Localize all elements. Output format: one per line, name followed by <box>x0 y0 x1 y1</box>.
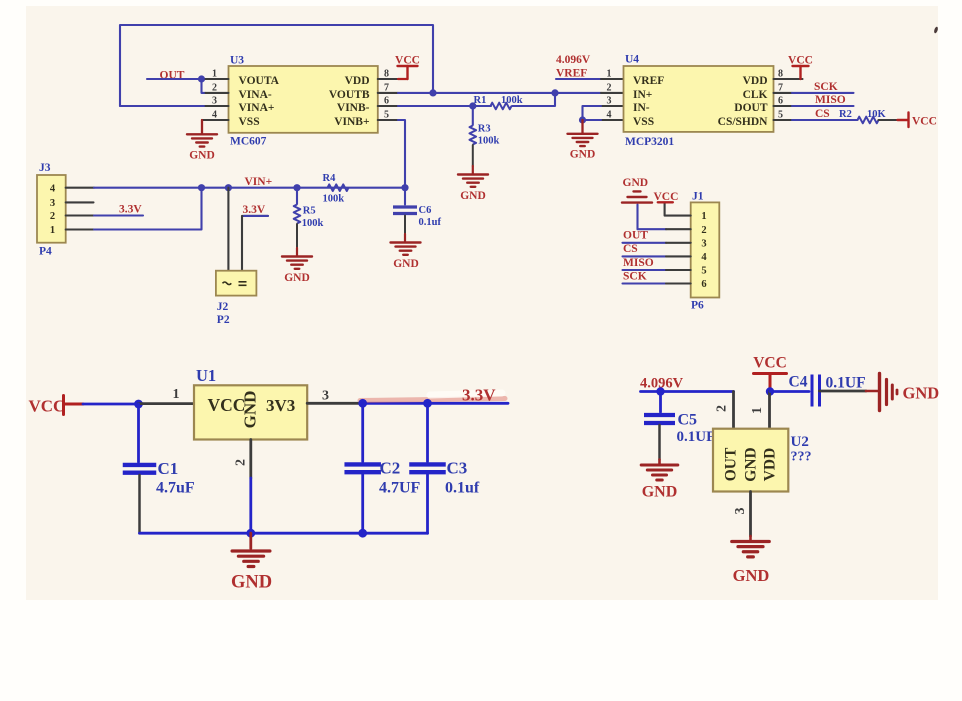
wire R5 ground stub <box>296 248 298 256</box>
power VCC at U4 pin 8 <box>793 66 809 79</box>
U3 pin number 6 <box>384 95 389 106</box>
label C6 <box>419 205 432 216</box>
J1 pin number 4 <box>701 252 707 263</box>
wire J3 pin2 3.3V stub <box>94 214 143 216</box>
svg-text:CS/SHDN: CS/SHDN <box>718 116 769 128</box>
label U2 value ??? <box>791 450 812 465</box>
label C6 value 0.1uf <box>419 217 442 228</box>
label R2 value 10K <box>867 109 887 120</box>
wire VREF to U4 pin 1 <box>556 78 601 80</box>
svg-text:4: 4 <box>50 184 56 195</box>
svg-text:8: 8 <box>384 68 389 79</box>
resistor R2 <box>858 117 879 124</box>
wire C5 ground stub <box>658 460 661 464</box>
svg-text:VCC: VCC <box>753 355 787 372</box>
junction OUT node <box>198 75 205 82</box>
U3 pin 2 stub <box>206 92 229 94</box>
J1 pin number 5 <box>701 266 706 277</box>
U2 pin number 2 rotated <box>715 405 730 412</box>
label R4 <box>323 173 337 184</box>
U3 pin name VINB- <box>337 102 370 114</box>
svg-text:VDD: VDD <box>345 75 370 87</box>
U1 pin number 2 rotated <box>233 459 248 466</box>
U4 pin number 2 <box>607 82 612 93</box>
net label 4.096V at C5 <box>640 376 684 392</box>
ground at J1 <box>622 191 652 202</box>
resistor R4 <box>328 184 349 191</box>
svg-text:GND: GND <box>570 149 596 161</box>
ground at U2 <box>732 542 770 557</box>
wire rail to ground <box>249 533 252 548</box>
J3 pin number 3 <box>50 198 55 209</box>
net label 3.3V at J3 <box>119 204 142 216</box>
U3 pin 4 stub <box>202 119 229 121</box>
U3 pin number 3 <box>212 95 217 106</box>
wire OUT to U3 pin 2 <box>202 79 206 93</box>
svg-text:GND: GND <box>284 272 310 284</box>
U4 pin number 1 <box>607 68 612 79</box>
svg-text:MC607: MC607 <box>230 136 267 148</box>
label GND at R3 <box>460 190 486 202</box>
wire C3 bottom <box>426 475 429 534</box>
junction J2 riser <box>225 184 232 191</box>
speck mark top-right <box>933 26 938 33</box>
wire ground rail <box>140 532 428 535</box>
ground at R5 <box>282 257 312 269</box>
svg-text:GND: GND <box>393 258 419 270</box>
svg-text:R5: R5 <box>303 206 316 217</box>
net label MISO <box>815 94 846 106</box>
label U4 <box>625 54 639 66</box>
wire U3 VSS to ground <box>201 120 203 133</box>
wire MISO net <box>792 105 854 107</box>
U3 pin name VOUTB <box>329 89 370 101</box>
svg-text:2: 2 <box>50 211 55 222</box>
wire C1 top <box>137 404 140 462</box>
svg-text:2: 2 <box>607 82 612 93</box>
svg-text:VREF: VREF <box>556 68 587 80</box>
svg-text:VOUTA: VOUTA <box>239 75 280 87</box>
svg-text:R1: R1 <box>474 95 487 106</box>
svg-text:GND: GND <box>642 484 678 501</box>
svg-text:3: 3 <box>212 95 217 106</box>
U4 pin 4 stub <box>601 119 624 121</box>
label C3 value 0.1uf <box>445 480 480 497</box>
U3 pin number 7 <box>384 82 389 93</box>
U1 pin name 3V3 <box>266 396 295 415</box>
power VCC bar at U2 <box>754 374 787 392</box>
svg-text:4: 4 <box>607 109 612 120</box>
wire VCC to U1 pin 1 <box>83 403 139 406</box>
svg-text:VSS: VSS <box>239 116 260 128</box>
U3 pin 8 stub <box>378 78 398 80</box>
capacitor C5 <box>644 415 675 423</box>
wire C1 bottom <box>138 475 141 533</box>
label VCC at J1 <box>654 191 679 203</box>
J1 pin 2 stub <box>666 228 691 230</box>
power VCC at J1 <box>658 201 673 203</box>
svg-text:5: 5 <box>778 109 783 120</box>
svg-text:VOUTB: VOUTB <box>329 89 370 101</box>
label C5 value 0.1UF <box>677 429 716 445</box>
U3 pin 5 stub <box>378 119 398 121</box>
U2 pin number 3 rotated <box>733 508 748 515</box>
wire U2 pin 3 ground stub <box>749 536 752 540</box>
label MC607 <box>230 136 267 148</box>
wire J1 MISO net <box>623 269 667 271</box>
svg-text:VINA-: VINA- <box>239 89 272 101</box>
wire C4 ground stub <box>866 390 878 393</box>
svg-text:5: 5 <box>384 109 389 120</box>
svg-text:3: 3 <box>701 238 706 249</box>
svg-text:VREF: VREF <box>633 75 664 87</box>
U2 pin name OUT rotated <box>723 447 740 481</box>
U4 pin name DOUT <box>734 102 768 114</box>
svg-text:GND: GND <box>743 447 760 481</box>
wire R5 to ground <box>296 224 298 248</box>
J3 pin 4 stub <box>66 187 94 189</box>
capacitor C6 <box>393 207 417 214</box>
U4 pin number 4 <box>607 109 612 120</box>
wire R2 to VCC <box>879 119 898 121</box>
wire U3 pin8 to VCC <box>398 78 408 80</box>
svg-text:1: 1 <box>701 211 706 222</box>
junction U4 VSS node <box>579 116 586 123</box>
U1 pin name GND rotated <box>240 391 259 429</box>
J1 pin number 2 <box>701 225 706 236</box>
U3 pin name VOUTA <box>239 75 280 87</box>
svg-text:VINB+: VINB+ <box>334 116 369 128</box>
wire U4 IN- to VSS node <box>583 106 602 120</box>
junction C6 node <box>401 184 408 191</box>
wire J3 pin1 to VIN+ <box>94 188 202 230</box>
U3 pin number 8 <box>384 68 389 79</box>
svg-text:J2: J2 <box>217 301 229 313</box>
svg-text:P2: P2 <box>217 314 230 326</box>
junction J3 pin1 riser <box>198 184 205 191</box>
label R2 <box>839 109 852 120</box>
wire CS net to R2 <box>792 119 858 121</box>
capacitor C4 <box>812 375 820 407</box>
wire C6 ground stub <box>404 234 406 242</box>
U3 pin 1 stub <box>206 78 229 80</box>
svg-text:7: 7 <box>778 82 783 93</box>
label U3 <box>230 55 244 67</box>
svg-text:VCC: VCC <box>788 55 813 67</box>
label C5 <box>678 412 698 429</box>
svg-text:100k: 100k <box>323 194 345 205</box>
label R4 value 100k <box>323 194 345 205</box>
U3 pin number 2 <box>212 82 217 93</box>
wire U1 pin 2 to rail <box>249 478 252 533</box>
svg-text:U1: U1 <box>196 366 216 385</box>
svg-text:3.3V: 3.3V <box>243 204 266 216</box>
wire U3 VOUTB to U4 IN+ <box>398 92 601 94</box>
wire J1 CS net <box>623 255 667 257</box>
junction feedback loop on VOUTB <box>429 89 436 96</box>
svg-text:VIN+: VIN+ <box>245 176 273 188</box>
svg-text:4: 4 <box>701 252 707 263</box>
wire J2 pin to VIN+ <box>227 188 229 271</box>
wire U2 pin 1 drop <box>768 392 771 429</box>
svg-text:C3: C3 <box>447 459 468 478</box>
wire U2 pin 2 drop <box>732 392 735 429</box>
label R3 <box>478 124 491 135</box>
label J3 <box>39 162 51 174</box>
pink smear artifact <box>360 399 505 401</box>
U3 pin number 1 <box>212 68 217 79</box>
wire 3.3V stub blue <box>244 215 268 217</box>
net label SCK <box>814 81 838 93</box>
junction R1 on VOUTB net <box>551 89 558 96</box>
label P2 <box>217 314 230 326</box>
net label VREF at U4 <box>556 68 587 80</box>
svg-text:SCK: SCK <box>623 270 647 282</box>
U4 pin 5 stub <box>774 119 793 121</box>
label R5 <box>303 206 316 217</box>
svg-text:VCC: VCC <box>395 55 420 67</box>
svg-text:1: 1 <box>607 68 612 79</box>
ground at C6 <box>391 243 421 255</box>
wire OUT to U3 pin 1 <box>147 78 206 80</box>
svg-text:VDD: VDD <box>743 75 768 87</box>
label VCC at U3 pin 8 <box>395 55 420 67</box>
wire J1 pin 2 to GND <box>638 205 667 230</box>
net label 3.3V at J2 <box>243 204 266 216</box>
wire J1 pin 1 to VCC <box>665 204 691 216</box>
U4 pin name VDD <box>743 75 768 87</box>
wire C4 to ground <box>820 390 867 393</box>
svg-text:GND: GND <box>903 384 940 403</box>
svg-text:6: 6 <box>384 95 389 106</box>
wire 4.096V to U2 pin 2 <box>641 390 734 393</box>
U4 pin 2 stub <box>601 92 624 94</box>
svg-text:2: 2 <box>233 459 248 466</box>
ground at U4 VSS <box>568 134 598 146</box>
wire U4 VSS stub <box>583 119 602 121</box>
svg-text:MCP3201: MCP3201 <box>625 136 674 148</box>
sensor U2 body <box>713 429 788 492</box>
label C1 value 4.7uF <box>156 480 195 497</box>
U3 pin 6 stub <box>378 105 398 107</box>
label R1 <box>474 95 487 106</box>
svg-text:0.1UF: 0.1UF <box>826 375 866 392</box>
svg-text:4.7uF: 4.7uF <box>156 480 195 497</box>
wire node to R3 <box>472 106 474 125</box>
U4 pin 8 stub <box>774 78 803 80</box>
U4 pin 3 stub <box>601 105 624 107</box>
ground at U3 VSS <box>187 134 217 146</box>
svg-text:1: 1 <box>173 387 180 402</box>
wire VIN+ to C6 <box>404 188 406 205</box>
svg-text:U2: U2 <box>791 434 809 450</box>
svg-text:1: 1 <box>50 225 55 236</box>
U3 pin name VSS <box>239 116 260 128</box>
U4 pin 7 stub <box>774 92 793 94</box>
label GND at C6 <box>393 258 419 270</box>
resistor R5 <box>294 205 301 224</box>
power VCC at U3 pin 8 <box>398 66 418 79</box>
svg-text:4.7UF: 4.7UF <box>379 480 421 497</box>
net label 3.3V output <box>462 386 496 405</box>
U1 pin number 3 <box>322 389 329 404</box>
wire U3 VINB+ down to VIN+ rail <box>398 120 405 188</box>
label GND at U4 VSS <box>570 149 596 161</box>
junction R5 node <box>293 184 300 191</box>
svg-text:OUT: OUT <box>723 447 740 481</box>
ground at R3 <box>458 175 488 187</box>
U4 pin number 3 <box>607 95 612 106</box>
svg-text:0.1uf: 0.1uf <box>419 217 442 228</box>
svg-text:DOUT: DOUT <box>734 102 768 114</box>
U4 pin number 6 <box>778 95 783 106</box>
wire J1 OUT net <box>623 242 667 244</box>
net label MISO at J1 <box>623 257 654 269</box>
svg-text:8: 8 <box>778 68 783 79</box>
svg-text:C4: C4 <box>789 374 808 391</box>
label GND at C4 <box>903 384 940 403</box>
svg-text:GND: GND <box>240 391 259 429</box>
net label VIN+ <box>245 176 273 188</box>
wire feedback loop U3 VINA+ to VOUTB <box>120 25 433 106</box>
net label VCC at U1 input <box>29 397 66 416</box>
svg-text:R3: R3 <box>478 124 491 135</box>
svg-text:3: 3 <box>322 389 329 404</box>
wire U3 VINB- to R1 <box>398 105 491 107</box>
U3 pin 3 stub <box>206 105 229 107</box>
wire C2 top <box>361 403 364 461</box>
regulator U1 body <box>194 385 307 439</box>
ground rotated at C4 <box>880 374 898 411</box>
power VCC at R2 <box>898 113 909 128</box>
J3 pin number 2 <box>50 211 55 222</box>
J3 pin 3 stub <box>66 201 94 203</box>
svg-text:100k: 100k <box>478 136 500 147</box>
J3 pin 2 stub <box>66 214 94 216</box>
U4 pin 6 stub <box>774 105 793 107</box>
svg-text:1: 1 <box>212 68 217 79</box>
J3 pin number 1 <box>50 225 55 236</box>
J3 pin number 4 <box>50 184 56 195</box>
U4 pin number 7 <box>778 82 783 93</box>
label C2 value 4.7UF <box>379 480 421 497</box>
svg-text:CLK: CLK <box>743 89 768 101</box>
junction VCC C1 node <box>134 400 143 409</box>
junction rail U1 pin2 <box>246 529 255 538</box>
U4 pin number 5 <box>778 109 783 120</box>
U1 pin 3 stub <box>307 402 363 405</box>
svg-text:3: 3 <box>607 95 612 106</box>
J1 MISO stub <box>666 269 691 271</box>
svg-text:GND: GND <box>231 573 272 593</box>
wire U3 VINA+ to feedback loop <box>120 105 206 107</box>
svg-text:IN+: IN+ <box>633 89 652 101</box>
wire R3 to ground <box>472 145 474 166</box>
U4 pin name IN+ <box>633 89 652 101</box>
net label OUT at J1 <box>623 230 648 242</box>
J2 polarity marks <box>223 282 247 286</box>
U3 pin 7 stub <box>378 92 398 94</box>
svg-text:7: 7 <box>384 82 389 93</box>
wire SCK net <box>792 92 854 94</box>
U4 pin 1 stub <box>601 78 624 80</box>
svg-text:C1: C1 <box>158 459 179 478</box>
svg-text:VCC: VCC <box>912 116 937 128</box>
U2 pin number 1 rotated <box>750 407 765 414</box>
label VCC at U4 pin 8 <box>788 55 813 67</box>
U2 pin name GND rotated <box>743 447 760 481</box>
label U1 <box>196 366 216 385</box>
wire C3 top <box>426 403 429 461</box>
label R3 value 100k <box>478 136 500 147</box>
label GND at C5 <box>642 484 678 501</box>
junction VCC C4 node <box>766 387 774 395</box>
label GND at R5 <box>284 272 310 284</box>
svg-text:CS: CS <box>815 108 830 120</box>
U4 pin name CS/SHDN <box>718 116 769 128</box>
svg-text:OUT: OUT <box>623 230 648 242</box>
svg-text:J3: J3 <box>39 162 51 174</box>
junction C2 node <box>358 399 367 408</box>
wire R3 ground stub <box>472 166 474 174</box>
J3 pin 1 stub <box>66 228 94 230</box>
wire C5 bottom <box>658 425 661 460</box>
connector J3 body <box>37 175 66 243</box>
adc U4 body <box>624 66 774 132</box>
label P6 <box>691 300 704 312</box>
U3 pin name VINA- <box>239 89 272 101</box>
capacitor C3 <box>409 464 446 472</box>
svg-text:R2: R2 <box>839 109 852 120</box>
wire C5 top <box>659 392 662 413</box>
U3 pin number 4 <box>212 109 217 120</box>
svg-text:C5: C5 <box>678 412 698 429</box>
svg-text:10K: 10K <box>867 109 887 120</box>
svg-text:???: ??? <box>791 450 812 465</box>
svg-text:3: 3 <box>733 508 748 515</box>
svg-text:4: 4 <box>212 109 217 120</box>
label GND at J1 <box>623 177 649 189</box>
svg-text:IN-: IN- <box>633 102 650 114</box>
svg-text:CS: CS <box>623 243 638 255</box>
svg-text:GND: GND <box>733 566 770 585</box>
net label OUT <box>160 69 185 81</box>
svg-text:1: 1 <box>750 407 765 414</box>
svg-text:VDD: VDD <box>762 448 779 482</box>
svg-text:J1: J1 <box>692 191 704 203</box>
wire VCC to C4 <box>770 390 809 393</box>
connector J1 body <box>691 202 720 297</box>
J1 OUT stub <box>666 242 691 244</box>
J1 CS stub <box>666 255 691 257</box>
U1 pin 1 stub <box>139 402 195 405</box>
resistor R3 <box>470 126 477 145</box>
svg-text:3: 3 <box>50 198 55 209</box>
U3 pin name VINB+ <box>334 116 369 128</box>
svg-text:VCC: VCC <box>29 397 66 416</box>
power VCC bar at U1 input <box>64 396 84 415</box>
svg-text:3.3V: 3.3V <box>119 204 142 216</box>
svg-text:VINB-: VINB- <box>337 102 370 114</box>
svg-text:2: 2 <box>701 225 706 236</box>
svg-text:6: 6 <box>778 95 783 106</box>
U2 pin 3 stub <box>749 492 752 537</box>
svg-text:0.1uf: 0.1uf <box>445 480 480 497</box>
svg-text:100k: 100k <box>501 95 523 106</box>
U1 pin name VCC <box>208 395 246 415</box>
junction R1 R3 node <box>469 102 476 109</box>
J1 pin number 1 <box>701 211 706 222</box>
